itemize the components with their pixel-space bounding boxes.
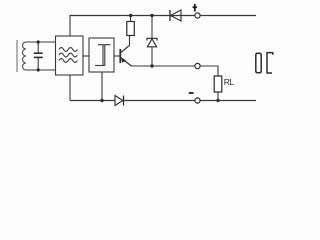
- diode D3 triangle: [115, 96, 123, 106]
- wire shaper box bottom to bottom rail: [101, 72, 103, 101]
- junction dot node RL bottom rail: [216, 99, 219, 102]
- diode D1 triangle: [171, 10, 182, 21]
- minus label: [189, 92, 194, 94]
- wire RL to bottom rail: [217, 92, 219, 101]
- filter wave symbol 3: [59, 59, 77, 63]
- capacitor C1 top lead: [37, 42, 39, 53]
- filter wave symbol 1: [59, 48, 77, 52]
- zener diode D2 triangle: [147, 39, 156, 47]
- transistor Q1 collector diagonal: [121, 46, 129, 53]
- wire collector up to resistor R1: [129, 36, 131, 47]
- wire top rail down to zener D2: [151, 16, 153, 39]
- capacitor C1 plates: [34, 53, 43, 57]
- wire shaper box to transistor base: [114, 55, 120, 57]
- terminal circle plus: [195, 13, 200, 18]
- plus label: [193, 4, 197, 12]
- wire bottom rail right section: [200, 100, 256, 102]
- antenna core bar: [16, 40, 18, 72]
- terminal circle minus: [195, 98, 200, 103]
- shaper box U2: [89, 38, 114, 72]
- svg-text:RL: RL: [224, 77, 235, 87]
- resistor R1 body: [127, 22, 135, 36]
- wire top rail left drop to filter box top: [69, 16, 71, 37]
- diode D1 cathode bar: [169, 10, 171, 21]
- transistor Q1 emitter diagonal: [121, 58, 132, 66]
- transistor Q1 emitter arrow: [121, 57, 126, 62]
- capacitor C1 bottom lead: [37, 57, 39, 70]
- junction dot node bottom of C1: [37, 68, 40, 71]
- junction dot node emitter line: [150, 64, 153, 67]
- wire filter box to shaper box: [83, 55, 89, 57]
- junction dot node R1 top rail: [129, 14, 132, 17]
- junction dot node shaper bottom: [100, 99, 103, 102]
- filter wave symbol 2: [59, 53, 77, 57]
- wire zener D2 to emitter node: [151, 47, 153, 66]
- shaper squared integral symbol: [95, 45, 111, 66]
- wire emitter to plus terminal: [131, 65, 195, 67]
- wire bottom rail left section: [70, 100, 115, 102]
- wire top rail: [70, 15, 257, 17]
- label DC letter D: [256, 53, 261, 73]
- terminal circle output mid: [195, 63, 200, 68]
- inductor L1 coil: [22, 42, 26, 70]
- diode D3 cathode bar: [123, 96, 125, 106]
- transistor Q1 base bar: [119, 49, 121, 63]
- wire mid terminal to RL: [200, 66, 218, 76]
- filter box U1: [56, 36, 84, 75]
- resistor RL body: [214, 76, 222, 92]
- junction dot node zener top rail: [150, 14, 153, 17]
- wire coil top to filter box: [26, 41, 56, 43]
- label DC letter C: [267, 53, 273, 73]
- zener diode D2 cathode bar: [147, 38, 157, 40]
- wire coil bottom to filter box: [26, 69, 56, 71]
- wire resistor R1 to top rail: [130, 16, 132, 22]
- wire bottom rail mid section: [124, 100, 195, 102]
- wire filter box bottom to bottom rail: [69, 75, 71, 101]
- junction dot node top of C1: [37, 40, 40, 43]
